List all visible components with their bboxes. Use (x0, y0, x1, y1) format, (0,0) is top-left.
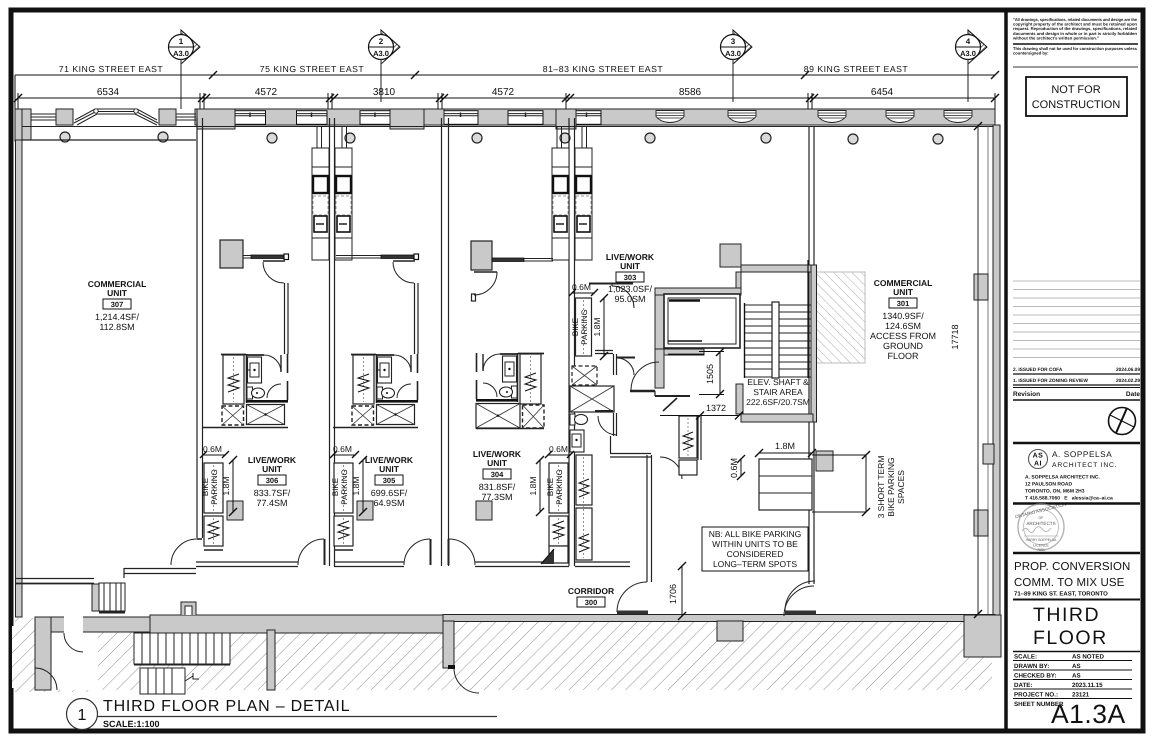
title block divider (1004, 12, 1008, 729)
dim 1706 (678, 562, 686, 620)
bottom gray wall: thin east portion (443, 615, 995, 622)
arched windows (right portion) (656, 111, 972, 123)
corridor vertical wall right of 303 lower area (647, 455, 652, 582)
svg-text:countersigned by:: countersigned by: (1013, 51, 1048, 56)
svg-text:A3.0: A3.0 (373, 49, 389, 58)
svg-text:COMM. TO MIX USE: COMM. TO MIX USE (1014, 577, 1125, 589)
small gray boxes in units (227, 501, 243, 520)
svg-text:75 KING STREET EAST: 75 KING STREET EAST (260, 64, 365, 74)
unit 303 entry wall + door (589, 284, 634, 309)
dim 1372 (700, 415, 739, 417)
unit 304 gray entry box (471, 241, 553, 301)
svg-text:1340.9SF/: 1340.9SF/ (882, 311, 924, 321)
shower big (247, 405, 285, 425)
section marker 4 A3.0 (956, 30, 988, 102)
svg-text:1.8M: 1.8M (528, 477, 538, 496)
svg-text:307: 307 (111, 300, 124, 309)
svg-text:SCALE:: SCALE: (1014, 654, 1037, 661)
svg-text:AS: AS (1033, 453, 1044, 460)
svg-text:3810: 3810 (373, 87, 396, 98)
svg-text:89 KING STREET EAST: 89 KING STREET EAST (804, 64, 909, 74)
unit 305 label (365, 455, 414, 508)
wall 303|301 (809, 126, 814, 584)
north arrow (1109, 408, 1136, 435)
left corner walls (16, 568, 196, 584)
svg-text:2024.06.09: 2024.06.09 (1116, 367, 1140, 373)
svg-text:8586: 8586 (679, 87, 702, 98)
sink counter (248, 357, 262, 383)
svg-text:2023.11.15: 2023.11.15 (1072, 682, 1103, 689)
svg-text:71 KING STREET EAST: 71 KING STREET EAST (59, 64, 164, 74)
svg-text:1.8M: 1.8M (221, 477, 231, 496)
0.6M dims (203, 282, 591, 454)
thick rule (1013, 442, 1140, 445)
corridor top wall (units bottom) (196, 562, 630, 567)
svg-text:A. SOPPELSA: A. SOPPELSA (1052, 450, 1112, 459)
svg-text:4: 4 (966, 37, 971, 46)
hatched exterior block right of stair (815, 272, 865, 363)
svg-text:GROUND: GROUND (883, 341, 923, 351)
svg-text:NB: ALL BIKE PARKING: NB: ALL BIKE PARKING (709, 529, 802, 539)
vestibule closet with zigzag (679, 415, 701, 475)
gray stubs (443, 621, 454, 668)
svg-text:PARKING: PARKING (580, 309, 589, 344)
svg-text:833.7SF/: 833.7SF/ (254, 488, 291, 498)
west thick band segment (51, 617, 150, 632)
inner face line of north wall (22, 126, 995, 128)
revision entries (1013, 367, 1140, 384)
unit 304 label (473, 449, 522, 502)
svg-text:A3.0: A3.0 (173, 49, 189, 58)
svg-text:STAIR AREA: STAIR AREA (753, 387, 803, 397)
svg-text:AS NOTED: AS NOTED (1072, 654, 1105, 661)
svg-text:THIRD FLOOR PLAN – DETAIL: THIRD FLOOR PLAN – DETAIL (103, 698, 350, 715)
svg-text:without the architect's writte: without the architect's written permissi… (1012, 35, 1099, 40)
dim 0.6M vertical (740, 459, 742, 476)
svg-text:831.8SF/: 831.8SF/ (479, 482, 516, 492)
svg-text:UNIT: UNIT (262, 464, 283, 474)
svg-text:THIRD: THIRD (1033, 604, 1100, 626)
svg-text:A. SOPPELSA ARCHITECT INC.: A. SOPPELSA ARCHITECT INC. (1025, 475, 1101, 481)
svg-text:2. ISSUED FOR COFA: 2. ISSUED FOR COFA (1013, 367, 1063, 373)
wall 304|303 (569, 118, 575, 566)
svg-text:AS: AS (1072, 673, 1081, 680)
svg-text:UNIT: UNIT (620, 261, 641, 271)
dim 1505 (699, 348, 724, 398)
unit 305 entry counter (336, 254, 419, 354)
unit 303 bike strip top (576, 298, 592, 356)
svg-text:1: 1 (179, 37, 184, 46)
door arc top right (264, 355, 281, 372)
svg-text:UNIT: UNIT (379, 464, 400, 474)
svg-text:ARCHITECTS: ARCHITECTS (1026, 521, 1055, 526)
section marker 1 A3.0 (169, 30, 201, 109)
svg-text:LONG–TERM SPOTS: LONG–TERM SPOTS (713, 559, 797, 569)
svg-text:1. ISSUED FOR ZONING REVIEW: 1. ISSUED FOR ZONING REVIEW (1013, 378, 1088, 384)
street line ticks (209, 71, 999, 79)
elevator label (746, 377, 810, 407)
svg-text:BIKE: BIKE (201, 478, 210, 496)
NB note box (702, 527, 808, 571)
wall 305|304 (442, 118, 449, 566)
small bump on wall (181, 602, 196, 615)
svg-text:1.8M: 1.8M (351, 477, 361, 496)
svg-text:FLOOR: FLOOR (887, 351, 919, 361)
svg-text:305: 305 (383, 476, 396, 485)
info table (1013, 651, 1140, 653)
svg-text:PARKING: PARKING (555, 469, 564, 504)
right dim line (865, 455, 867, 512)
left vertical gray wall (35, 617, 51, 690)
unit 307 corridor door (171, 539, 197, 565)
svg-text:A1.3A: A1.3A (1051, 699, 1126, 729)
svg-text:1.8M: 1.8M (592, 318, 602, 337)
svg-text:1706: 1706 (668, 584, 678, 604)
top wall (246, 354, 264, 356)
bottom title (67, 699, 98, 730)
walls below 303 (interior hallway) (595, 351, 690, 480)
svg-text:304: 304 (491, 470, 504, 479)
unit 304 bike strip (right side) (549, 463, 568, 546)
svg-text:ACCESS FROM: ACCESS FROM (870, 331, 936, 341)
dim 1.8M horizontal (759, 452, 812, 454)
svg-text:OF: OF (1039, 516, 1045, 520)
svg-text:300: 300 (585, 598, 598, 607)
svg-text:1,214.4SF/: 1,214.4SF/ (95, 312, 140, 322)
svg-text:UNIT: UNIT (487, 458, 508, 468)
svg-text:124.6SM: 124.6SM (885, 321, 921, 331)
svg-text:306: 306 (266, 476, 279, 485)
unit 303 closet strip lower (576, 455, 592, 560)
svg-text:1: 1 (78, 707, 87, 724)
unit 303 bathroom (570, 366, 614, 452)
kitchen pod at wall 306|305 (312, 148, 352, 260)
svg-text:A3.0: A3.0 (725, 49, 741, 58)
left exterior wall (15, 109, 22, 141)
svg-text:2: 2 (379, 37, 384, 46)
corridor left stair (92, 584, 99, 611)
svg-text:3: 3 (731, 37, 736, 46)
svg-text:81–83 KING STREET EAST: 81–83 KING STREET EAST (543, 64, 664, 74)
corridor label (568, 586, 614, 607)
svg-text:PROP. CONVERSION: PROP. CONVERSION (1014, 561, 1130, 573)
bathroom pod unit 305 (333, 354, 418, 428)
hatched existing building strip (98, 621, 992, 690)
lower right door (267, 384, 281, 398)
svg-text:699.6SF/: 699.6SF/ (371, 488, 408, 498)
section marker symbol def (169, 30, 988, 109)
right wall with door gap (287, 354, 289, 373)
elevator cab (664, 294, 740, 348)
closet (223, 355, 244, 404)
big pier at unit306 left (197, 109, 235, 129)
bottom wall line (203, 427, 288, 429)
svg-text:NOT FOR: NOT FOR (1051, 84, 1100, 96)
door arc into commercial 301 (785, 611, 816, 615)
1.8M dims vertical (229, 294, 608, 516)
unit 303 label (606, 252, 655, 304)
svg-text:77.3SM: 77.3SM (481, 492, 512, 502)
pod risers to facade (317, 126, 587, 148)
svg-text:6534: 6534 (97, 87, 120, 98)
svg-text:95.0SM: 95.0SM (614, 294, 645, 304)
svg-text:CHECKED BY:: CHECKED BY: (1014, 673, 1057, 680)
bathroom pod unit 304 (mirrored) (476, 353, 544, 429)
svg-text:0.6M: 0.6M (729, 458, 739, 478)
kitchen pod at wall 304|303 (552, 148, 592, 260)
unit 301 label (870, 278, 936, 361)
svg-text:SCALE:1:100: SCALE:1:100 (103, 719, 160, 729)
unit 307 label (88, 279, 147, 332)
stair treads (744, 305, 811, 377)
door arc at bottom near corridor (617, 582, 647, 612)
svg-text:CONSTRUCTION: CONSTRUCTION (1032, 99, 1121, 111)
dashed shower (222, 406, 244, 425)
left lower room white (51, 632, 98, 690)
svg-text:DRAWN BY:: DRAWN BY: (1014, 663, 1049, 670)
svg-text:4572: 4572 (492, 87, 515, 98)
svg-text:301: 301 (897, 299, 910, 308)
wall between closet and bath (246, 354, 248, 403)
stair area door arc (454, 668, 479, 693)
unit 306 gray entry box + counter + door (220, 240, 289, 354)
svg-text:A3.0: A3.0 (960, 49, 976, 58)
svg-text:UNIT: UNIT (893, 287, 914, 297)
svg-text:PARKING: PARKING (340, 469, 349, 504)
NOT FOR CONSTRUCTION stamp (1026, 77, 1127, 116)
copyright paragraph (1012, 17, 1138, 40)
threshold dark (247, 400, 289, 403)
svg-text:Revision: Revision (1013, 391, 1040, 398)
svg-text:1505: 1505 (705, 364, 715, 384)
svg-text:12 PAULSON ROAD: 12 PAULSON ROAD (1025, 482, 1073, 488)
elevator shaft gray walls (655, 244, 817, 422)
svg-text:0.6M: 0.6M (549, 444, 568, 454)
right exterior wall (993, 125, 1000, 618)
revision rule lines (1013, 281, 1140, 358)
svg-text:7061: 7061 (1037, 548, 1045, 552)
svg-text:23121: 23121 (1072, 692, 1090, 699)
section marker 3 A3.0 (721, 30, 753, 102)
logo (1029, 450, 1048, 469)
svg-text:71–89 KING ST. EAST, TORONTO: 71–89 KING ST. EAST, TORONTO (1014, 591, 1108, 598)
unit 306 label (248, 455, 297, 508)
svg-text:SPACES: SPACES (896, 470, 906, 504)
unit 307 front inner line (22, 139, 196, 141)
svg-text:CONSIDERED: CONSIDERED (727, 549, 784, 559)
toilet (247, 387, 253, 399)
svg-text:AS: AS (1072, 663, 1081, 670)
svg-text:T 416.588.7060 E alessia@c: T 416.588.7060 E alessia@ca–ai.ca (1025, 496, 1113, 502)
address (1025, 475, 1113, 502)
right side vertical dimension 17718 (977, 126, 979, 614)
svg-text:17718: 17718 (950, 324, 960, 349)
svg-text:TORONTO, ON, M6M 2H3: TORONTO, ON, M6M 2H3 (1025, 489, 1085, 495)
north facade wall band (15, 109, 995, 140)
svg-text:FLOOR: FLOOR (1033, 627, 1108, 649)
corridor door arcs for units (298, 539, 475, 565)
svg-text:303: 303 (624, 273, 637, 282)
left unit facade: bay window (15, 109, 31, 140)
svg-text:4572: 4572 (255, 87, 278, 98)
svg-text:ARCHITECT INC.: ARCHITECT INC. (1052, 462, 1117, 469)
svg-text:112.8SM: 112.8SM (99, 322, 134, 332)
door arc into 301 at bottom (784, 586, 814, 616)
bottom gray wall: thick west portion (150, 615, 443, 633)
door arcs in lower-left room (64, 633, 83, 652)
main lower stair (134, 633, 230, 665)
svg-text:77.4SM: 77.4SM (256, 498, 287, 508)
svg-text:BIKE: BIKE (331, 478, 340, 496)
left hatch block (12, 626, 35, 688)
svg-text:BIKE: BIKE (571, 318, 580, 336)
right wall piers (987, 126, 989, 614)
svg-text:PROJECT NO.:: PROJECT NO.: (1014, 692, 1058, 699)
bathroom pod unit 306 (203, 354, 288, 428)
street label dimension line (15, 75, 995, 110)
svg-text:ELEV. SHAFT &: ELEV. SHAFT & (747, 377, 809, 387)
bike strip unit 306 (204, 463, 223, 550)
svg-text:HARRY SOPPELSA: HARRY SOPPELSA (1026, 538, 1058, 542)
svg-text:LICENCE: LICENCE (1033, 544, 1049, 548)
svg-text:CORRIDOR: CORRIDOR (568, 586, 614, 596)
rectangular windows (units 306-304): white gaps with glazing band (235, 111, 601, 125)
bay window glazing (74, 109, 158, 125)
svg-text:BIKE: BIKE (546, 478, 555, 496)
main dimension line (18, 93, 995, 118)
svg-text:222.6SF/20.7SM: 222.6SF/20.7SM (746, 397, 810, 407)
svg-text:6454: 6454 (871, 87, 894, 98)
svg-text:AI: AI (1034, 461, 1042, 468)
svg-text:UNIT: UNIT (107, 288, 128, 298)
svg-text:DATE:: DATE: (1014, 682, 1032, 689)
svg-text:64.9SM: 64.9SM (373, 498, 404, 508)
wall 306|305 (330, 118, 335, 566)
svg-text:BIKE PARKING: BIKE PARKING (886, 457, 896, 516)
svg-text:2024.02.29: 2024.02.29 (1116, 378, 1140, 384)
3 short term bike parking (729, 441, 870, 516)
svg-text:1,023.0SF/: 1,023.0SF/ (608, 284, 653, 294)
wall 307|306 (197, 118, 203, 538)
seal (1014, 502, 1066, 552)
svg-text:3 SHORT TERM: 3 SHORT TERM (876, 456, 886, 519)
svg-text:Date: Date (1126, 391, 1140, 398)
section marker 2 A3.0 (369, 30, 401, 102)
svg-text:1372: 1372 (706, 403, 726, 413)
columns (60, 132, 943, 144)
svg-text:WITHIN UNITS TO BE: WITHIN UNITS TO BE (712, 539, 798, 549)
svg-text:PARKING: PARKING (210, 469, 219, 504)
svg-text:1.8M: 1.8M (775, 441, 795, 451)
